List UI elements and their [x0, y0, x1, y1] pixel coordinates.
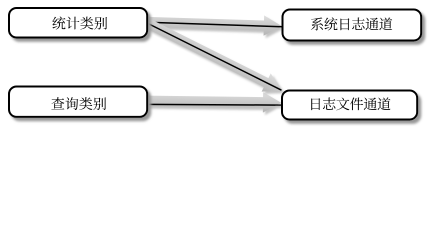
- box B: [9, 87, 147, 117]
- label 系统日志通道: [311, 17, 392, 30]
- box A: [9, 8, 147, 38]
- label 日志文件通道: [311, 97, 390, 110]
- box C: [283, 10, 422, 41]
- label 查询类别: [51, 97, 106, 110]
- label 统计类别: [52, 17, 107, 30]
- arrow B to D: [146, 91, 281, 113]
- arrow A to C: [147, 12, 282, 37]
- arrow A to D diagonal: [142, 14, 286, 100]
- box D: [282, 91, 417, 120]
